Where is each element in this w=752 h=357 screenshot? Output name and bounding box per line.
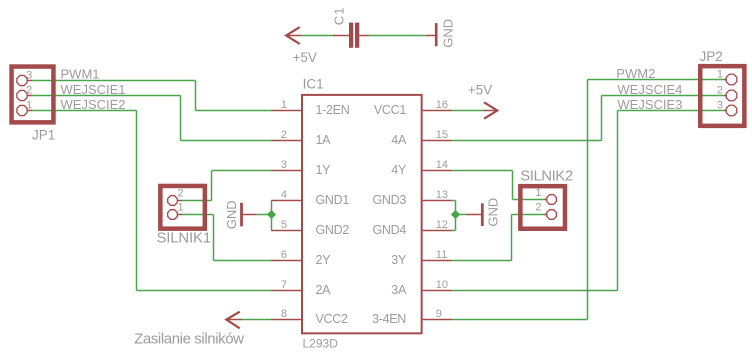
svg-text:1: 1 <box>535 187 541 199</box>
svg-text:JP2: JP2 <box>700 49 723 64</box>
svg-text:2A: 2A <box>316 283 332 297</box>
svg-text:GND: GND <box>224 200 239 229</box>
svg-text:13: 13 <box>436 189 448 201</box>
svg-text:2: 2 <box>178 187 184 199</box>
svg-text:3A: 3A <box>391 283 407 297</box>
svg-text:12: 12 <box>436 219 448 231</box>
svg-text:SILNIK2: SILNIK2 <box>520 168 573 185</box>
svg-text:L293D: L293D <box>303 337 339 351</box>
svg-text:1Y: 1Y <box>316 163 332 177</box>
svg-text:3: 3 <box>26 69 32 81</box>
svg-text:JP1: JP1 <box>32 128 55 143</box>
svg-text:VCC2: VCC2 <box>316 312 348 326</box>
svg-text:10: 10 <box>436 279 448 291</box>
svg-text:PWM1: PWM1 <box>61 67 100 82</box>
svg-text:3: 3 <box>717 99 723 111</box>
svg-text:C1: C1 <box>332 7 347 26</box>
svg-text:5: 5 <box>281 219 287 231</box>
svg-text:WEJSCIE2: WEJSCIE2 <box>61 97 126 112</box>
svg-text:2: 2 <box>717 84 723 96</box>
svg-text:16: 16 <box>436 99 448 111</box>
svg-text:1: 1 <box>281 99 287 111</box>
svg-text:2: 2 <box>26 84 32 96</box>
svg-text:15: 15 <box>436 129 448 141</box>
svg-text:GND1: GND1 <box>316 193 350 207</box>
svg-text:1-2EN: 1-2EN <box>316 103 350 117</box>
svg-text:4: 4 <box>281 189 287 201</box>
svg-text:WEJSCIE3: WEJSCIE3 <box>617 97 682 112</box>
svg-text:GND3: GND3 <box>372 193 406 207</box>
svg-text:IC1: IC1 <box>303 77 324 92</box>
svg-text:3Y: 3Y <box>391 253 407 267</box>
svg-text:PWM2: PWM2 <box>616 66 655 81</box>
svg-text:11: 11 <box>436 249 447 261</box>
svg-text:14: 14 <box>436 159 448 171</box>
svg-text:7: 7 <box>281 279 287 291</box>
svg-text:Zasilanie silników: Zasilanie silników <box>134 330 244 347</box>
svg-text:GND: GND <box>486 198 501 227</box>
svg-text:GND4: GND4 <box>372 223 406 237</box>
svg-text:8: 8 <box>281 308 287 320</box>
svg-text:4A: 4A <box>391 133 407 147</box>
svg-text:2: 2 <box>281 129 287 141</box>
svg-text:9: 9 <box>436 308 442 320</box>
svg-text:+5V: +5V <box>468 83 492 98</box>
svg-text:4Y: 4Y <box>391 163 407 177</box>
svg-text:WEJSCIE4: WEJSCIE4 <box>617 82 682 97</box>
svg-text:1: 1 <box>26 99 32 111</box>
svg-text:3-4EN: 3-4EN <box>372 312 406 326</box>
svg-text:GND: GND <box>440 19 455 48</box>
svg-text:3: 3 <box>281 159 287 171</box>
svg-text:SILNIK1: SILNIK1 <box>157 230 211 247</box>
svg-text:2: 2 <box>535 202 541 214</box>
svg-text:1A: 1A <box>316 133 332 147</box>
svg-text:2Y: 2Y <box>316 253 332 267</box>
svg-text:VCC1: VCC1 <box>374 103 406 117</box>
svg-text:6: 6 <box>281 249 287 261</box>
svg-text:WEJSCIE1: WEJSCIE1 <box>61 82 126 97</box>
svg-text:1: 1 <box>717 68 723 80</box>
svg-text:GND2: GND2 <box>316 223 350 237</box>
svg-text:+5V: +5V <box>293 50 317 65</box>
svg-text:1: 1 <box>178 201 184 213</box>
